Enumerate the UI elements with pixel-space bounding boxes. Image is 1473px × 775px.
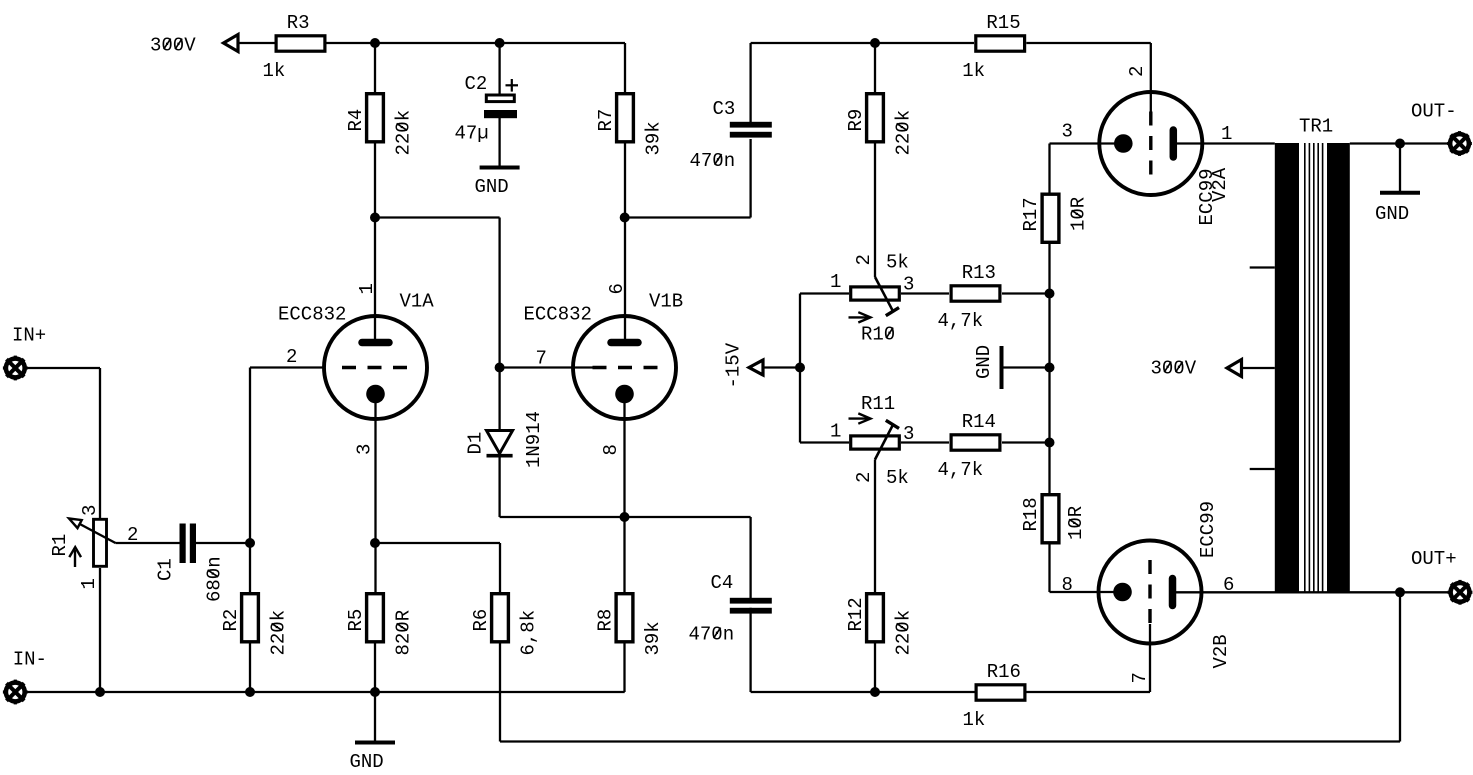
svg-text:R10: R10 [861, 324, 895, 346]
wire R16 to V2B pin7 [1026, 691, 1150, 693]
resistor R6 6,8k [492, 594, 509, 642]
supply arrow 300V (TR1 center tap) [1227, 360, 1242, 377]
svg-text:R2: R2 [220, 609, 242, 632]
resistor R3 1k [276, 36, 325, 51]
wire pin2 column down to C1 node [249, 368, 251, 544]
trimmer R10 5k body [851, 287, 900, 300]
svg-text:R4: R4 [345, 109, 367, 132]
potentiometer R1 direction arrow [74, 550, 76, 567]
svg-text:R17: R17 [1020, 197, 1042, 231]
wire R7 to V1B anode [624, 144, 626, 343]
wire C4 down to bias rail [749, 608, 751, 692]
wire TR1 secondary to OUT- [1350, 142, 1449, 144]
wire R17 to R18 [1048, 244, 1050, 494]
svg-text:3: 3 [903, 274, 914, 296]
value 1N914 [523, 411, 545, 468]
wire V2A pin3 [1050, 142, 1125, 144]
junction GND/R17 column [1045, 363, 1055, 373]
junction node R4/top-rail [370, 38, 380, 48]
svg-text:4,7k: 4,7k [938, 310, 984, 332]
wire V2B anode to TR1 and OUT+ [1171, 591, 1449, 593]
wire down to R6 [499, 543, 501, 592]
wire R11 pin3 to R14 [901, 441, 949, 443]
wire IN+ to R1 [28, 367, 101, 369]
svg-text:3: 3 [79, 505, 101, 516]
wire R1 bottom to IN- rail [99, 568, 101, 692]
wire R13 to R17 column [1002, 292, 1050, 294]
label R1 [49, 534, 71, 557]
junction R9 top [870, 38, 880, 48]
svg-text:8: 8 [1062, 574, 1073, 596]
svg-text:V2A: V2A [1209, 167, 1231, 202]
svg-text:C4: C4 [711, 572, 734, 594]
svg-text:V1B: V1B [649, 291, 683, 313]
svg-text:R13: R13 [962, 262, 996, 284]
wire 300V to TR1 [1241, 367, 1275, 369]
supply arrow 300V (left) [224, 35, 239, 52]
svg-text:1: 1 [78, 578, 100, 589]
svg-text:470n: 470n [690, 150, 736, 172]
svg-text:6,8k: 6,8k [518, 610, 540, 656]
svg-text:680n: 680n [204, 556, 226, 602]
junction node V1A cathode [370, 538, 380, 548]
svg-text:3: 3 [354, 444, 376, 455]
svg-text:R3: R3 [287, 12, 310, 34]
svg-text:1: 1 [830, 271, 841, 293]
wire V1A grid pin 2 [250, 366, 324, 368]
svg-text:220k: 220k [268, 610, 290, 656]
svg-text:R7: R7 [595, 109, 617, 132]
label ECC99 V2A [1196, 168, 1218, 225]
svg-text:ECC832: ECC832 [524, 304, 592, 326]
junction grid node V1B [495, 363, 505, 373]
capacitor C2 positive plate [486, 95, 514, 102]
svg-text:GND: GND [475, 176, 509, 198]
svg-text:V1A: V1A [400, 291, 435, 313]
svg-text:1N914: 1N914 [523, 411, 545, 468]
svg-text:OUT+: OUT+ [1411, 548, 1457, 570]
svg-text:3: 3 [1062, 121, 1073, 143]
pin 2 label R10 [853, 254, 875, 265]
svg-text:10R: 10R [1065, 506, 1087, 540]
svg-text:10R: 10R [1068, 197, 1090, 231]
terminal IN- [6, 683, 25, 702]
trimmer R11 5k body [851, 436, 900, 449]
wire node down to R2 [249, 543, 251, 592]
label D1 [465, 432, 487, 455]
transformer TR1 secondary bar [1327, 143, 1350, 593]
resistor R7 39k [617, 94, 634, 142]
svg-text:IN-: IN- [13, 649, 47, 671]
svg-text:OUT-: OUT- [1411, 101, 1457, 123]
wire cathode node to R6 [375, 542, 500, 544]
wire down to R9 [874, 43, 876, 92]
wire R12 to bias rail [874, 644, 876, 693]
pin 3 label R1 [79, 505, 101, 516]
diode D1 1N914 [487, 431, 513, 454]
svg-text:220k: 220k [893, 610, 915, 656]
wire 300V to R3 [238, 42, 275, 44]
triode V2B (ECC99) [1099, 541, 1202, 644]
triode V1B (ECC832) [573, 316, 676, 419]
svg-text:R9: R9 [845, 109, 867, 132]
potentiometer R1 body [94, 519, 107, 566]
ground at OUT- [1399, 144, 1401, 193]
junction OUT+ / feedback [1395, 587, 1405, 597]
wire V1A cathode down [374, 394, 376, 592]
pin 1 label V1A [356, 283, 378, 294]
wire cathode node to C4 [625, 516, 751, 518]
svg-text:1k: 1k [263, 60, 286, 82]
wire V2A anode to TR1 [1172, 142, 1275, 144]
supply arrow -15V [749, 360, 763, 375]
capacitor C1 plates [180, 524, 186, 564]
ground bottom left [374, 692, 376, 743]
resistor R5 820R [367, 594, 384, 642]
svg-text:TR1: TR1 [1299, 116, 1333, 138]
label C1 [155, 558, 177, 581]
capacitor C2 negative plate [484, 110, 517, 118]
svg-text:2: 2 [853, 254, 875, 265]
capacitor C3 470n plates [730, 122, 772, 128]
wire R11 pin1 [800, 441, 849, 443]
svg-text:R15: R15 [986, 12, 1020, 34]
pin 8 label V1B [600, 444, 622, 455]
svg-text:-15V: -15V [723, 342, 745, 388]
svg-text:C1: C1 [155, 558, 177, 581]
svg-text:300V: 300V [1151, 358, 1197, 380]
triode V2A (ECC99) [1099, 92, 1202, 195]
trimmer R11 wiper [875, 424, 893, 459]
wire top rail to C2 [498, 43, 500, 95]
wire anode node to C3 [625, 216, 751, 218]
wire R8 bottom to IN- rail [623, 644, 625, 693]
pin 7 label V2B [1129, 672, 1151, 683]
svg-text:V2B: V2B [1210, 634, 1232, 668]
wire R9 to R10 wiper [874, 144, 876, 278]
svg-text:6: 6 [606, 283, 628, 294]
resistor R4 220k [367, 94, 384, 142]
junction IN- / R5 / GND [370, 687, 380, 697]
svg-text:220k: 220k [393, 110, 415, 156]
svg-text:47µ: 47µ [455, 123, 489, 145]
svg-text:2: 2 [853, 472, 875, 483]
junction node V1B anode rail [620, 213, 630, 223]
wire C1 to node [196, 542, 250, 544]
wire V2A pin3 column [1048, 144, 1050, 193]
trimmer R10 wiper [875, 277, 893, 312]
svg-text:1k: 1k [963, 709, 986, 731]
feedback wire bottom [500, 740, 1400, 742]
junction node V1A anode rail [370, 213, 380, 223]
wire R10 pin1 to -15V column [800, 292, 849, 294]
resistor R16 1k [976, 685, 1025, 700]
svg-text:4,7k: 4,7k [938, 459, 984, 481]
svg-text:C2: C2 [465, 73, 488, 95]
svg-text:2: 2 [1126, 66, 1148, 77]
svg-text:39k: 39k [642, 621, 664, 655]
svg-text:R8: R8 [595, 609, 617, 632]
svg-text:470n: 470n [689, 624, 735, 646]
junction V1B cathode/D1 [620, 512, 630, 522]
wire R10 pin3 to R13 [901, 292, 949, 294]
svg-text:39k: 39k [643, 121, 665, 155]
junction node C2/top-rail [495, 38, 505, 48]
label V2B [1210, 634, 1232, 668]
wire R15 to V2A pin2 [1026, 42, 1151, 44]
ground below C2 [498, 118, 500, 168]
svg-text:GND: GND [350, 751, 384, 773]
junction R14/R18 column [1045, 438, 1055, 448]
svg-text:R1: R1 [49, 534, 71, 557]
pin 1 label R1 [78, 578, 100, 589]
svg-text:C3: C3 [713, 98, 736, 120]
wire R2 to IN- rail [249, 644, 251, 693]
wire R1 wiper to C1 [116, 542, 181, 544]
resistor R17 10R [1042, 194, 1059, 242]
junction IN- / R2 [245, 687, 255, 697]
svg-text:R12: R12 [845, 597, 867, 631]
triode V1A (ECC832) [324, 316, 427, 419]
wire V2B pin8 [1099, 591, 1124, 593]
value 680n C1 [204, 556, 226, 602]
svg-text:D1: D1 [465, 432, 487, 455]
terminal IN+ [6, 359, 25, 378]
wire grid node to V1B pin7 [500, 366, 606, 368]
svg-text:1: 1 [356, 283, 378, 294]
svg-text:ECC832: ECC832 [278, 304, 346, 326]
svg-text:R16: R16 [987, 661, 1021, 683]
svg-text:2: 2 [286, 346, 297, 368]
resistor R13 4,7k [951, 286, 1000, 301]
svg-text:R6: R6 [470, 609, 492, 632]
potentiometer R1 wiper arrow [76, 522, 116, 543]
svg-text:7: 7 [536, 348, 547, 370]
pin 6 label V1B [606, 283, 628, 294]
wire -15V arrow to node [763, 366, 800, 368]
terminal OUT+ [1451, 583, 1470, 602]
wire R11 wiper down to R12 [874, 460, 876, 593]
junction R13/R17 column [1045, 289, 1055, 299]
resistor R12 220k [867, 594, 884, 642]
wire grid node to D1 [498, 368, 500, 432]
wire top rail down to R4 [374, 43, 376, 92]
svg-text:R18: R18 [1020, 497, 1042, 531]
svg-text:8: 8 [600, 444, 622, 455]
transformer TR1 tap tick lower [1250, 468, 1275, 470]
junction IN- / R1 [95, 687, 105, 697]
transformer TR1 core lines [1304, 143, 1306, 593]
wire top rail down to R7 [624, 43, 626, 92]
svg-text:ECC99: ECC99 [1197, 501, 1219, 558]
svg-text:R5: R5 [345, 609, 367, 632]
wire R14 to R18 column [1002, 441, 1050, 443]
svg-text:220k: 220k [893, 110, 915, 156]
resistor R9 220k [867, 94, 884, 142]
svg-text:820R: 820R [393, 610, 415, 656]
transformer TR1 primary bar [1275, 143, 1299, 593]
svg-text:5k: 5k [886, 467, 909, 489]
ground mid (bias) [1002, 366, 1050, 368]
wire grid column down [498, 218, 500, 368]
wire R6 down to feedback rail [499, 644, 501, 742]
wire top rail (R3 to R7 column) [327, 42, 626, 44]
svg-text:GND: GND [1375, 203, 1409, 225]
wire C3 up to rail [749, 43, 751, 123]
wire rail C3 to R15 [751, 42, 974, 44]
svg-text:7: 7 [1129, 672, 1151, 683]
svg-text:300V: 300V [150, 35, 196, 57]
svg-text:IN+: IN+ [12, 325, 46, 347]
junction -15V node [795, 363, 805, 373]
svg-text:1: 1 [830, 421, 841, 443]
svg-text:5k: 5k [886, 252, 909, 274]
svg-text:R11: R11 [861, 393, 895, 415]
wire IN- rail [28, 691, 625, 693]
svg-text:GND: GND [973, 345, 995, 379]
wire R4 to V1A anode [374, 144, 376, 343]
resistor R18 10R [1042, 495, 1059, 543]
svg-text:R14: R14 [962, 411, 996, 433]
junction OUT- / GND [1395, 139, 1405, 149]
trimmer R11 direction arrow [849, 417, 869, 419]
svg-text:1k: 1k [962, 60, 985, 82]
transformer TR1 tap tick upper [1250, 266, 1275, 268]
wire node to grid column of V1B [375, 216, 500, 218]
wire V1B cathode down to R8 [623, 394, 625, 592]
resistor R15 1k [976, 36, 1025, 51]
label V2A [1209, 167, 1231, 202]
pin 3 label V1A [354, 444, 376, 455]
wire R5 to rail [374, 644, 376, 693]
resistor R14 4,7k [951, 435, 1000, 450]
label ECC99 V2B [1197, 501, 1219, 558]
resistor R2 220k [242, 594, 259, 642]
pin 2 label R11 [853, 472, 875, 483]
wire R18 to V2B pin8 [1048, 544, 1050, 592]
junction node C1/R2/grid [245, 538, 255, 548]
junction bias rail R12 [870, 687, 880, 697]
svg-text:1: 1 [1221, 123, 1232, 145]
trimmer R10 direction arrow [849, 316, 869, 318]
plus sign C2 [506, 84, 519, 86]
resistor R8 39k [616, 594, 633, 642]
capacitor C4 470n plates [730, 598, 772, 604]
terminal OUT- [1450, 134, 1469, 153]
pin 2 label V2A [1126, 66, 1148, 77]
wire D1 to cathode rail [498, 456, 500, 517]
